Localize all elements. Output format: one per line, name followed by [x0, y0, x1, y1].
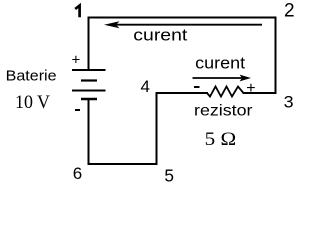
svg-text:2: 2: [284, 1, 295, 22]
svg-text:rezistor: rezistor: [194, 103, 253, 120]
svg-text:10 V: 10 V: [15, 93, 51, 113]
current arrow (resistor, pointing right): [193, 75, 252, 82]
polarity - (resistor left): [194, 86, 200, 88]
wire resistor right lead to node 3: [243, 92, 277, 94]
wire bottom: node 6 to node 5: [88, 163, 158, 165]
wire left bottom: battery minus to node 6: [88, 99, 90, 165]
wire middle vertical: node 4 to node 5: [156, 92, 158, 165]
wire left top: node 1 to battery plus: [88, 17, 90, 71]
svg-text:6: 6: [73, 164, 82, 183]
battery polarity -: [75, 109, 80, 111]
wire right: node 2 to node 3: [275, 17, 277, 95]
svg-text:+: +: [246, 80, 255, 97]
node 1: [75, 6, 79, 18]
svg-text:4: 4: [141, 77, 150, 96]
wire node 4 to resistor left lead: [157, 92, 209, 94]
wire top: node 1 to node 2: [89, 17, 277, 19]
svg-text:3: 3: [284, 92, 294, 111]
resistor rezistor 5 ohm (zigzag): [207, 87, 244, 97]
current arrow (top, pointing left): [104, 21, 262, 28]
battery B1 plates: [72, 70, 106, 99]
svg-text:5 Ω: 5 Ω: [205, 129, 237, 150]
svg-text:5: 5: [164, 165, 174, 185]
svg-text:curent: curent: [133, 26, 187, 44]
svg-text:curent: curent: [195, 54, 245, 72]
svg-text:Baterie: Baterie: [6, 69, 57, 85]
svg-text:+: +: [72, 51, 81, 68]
